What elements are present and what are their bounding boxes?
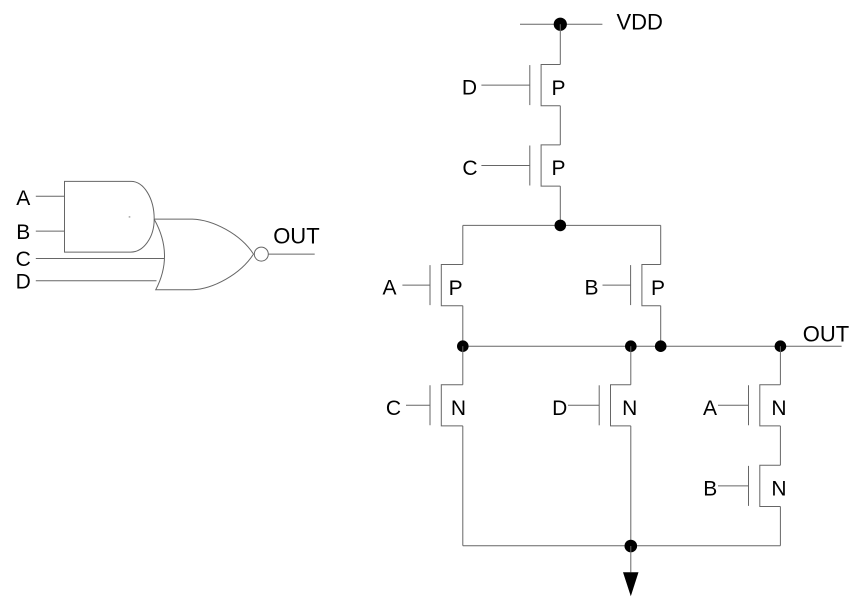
svg-text:C: C	[16, 248, 31, 271]
junction dot on VDD rail	[554, 18, 567, 31]
wire M8 source to ground rail	[779, 507, 781, 546]
svg-text:D: D	[462, 77, 477, 100]
junction dot OUT rail right	[775, 340, 787, 352]
svg-text:D: D	[16, 271, 31, 294]
svg-text:A: A	[703, 397, 717, 420]
wire VDD to M1 source	[559, 24, 561, 64]
transistor M7 (N-channel MOSFET, gate A)	[718, 385, 780, 426]
svg-text:OUT: OUT	[273, 223, 319, 248]
wire OUT rail down to M6 drain	[630, 346, 632, 385]
svg-text:P: P	[449, 277, 463, 300]
svg-text:N: N	[622, 397, 637, 420]
NOR gate U2 output inversion bubble	[254, 247, 268, 261]
junction dot OUT rail left	[457, 340, 469, 352]
svg-text:P: P	[651, 277, 665, 300]
wire input D to NOR gate	[36, 280, 157, 282]
svg-text:B: B	[703, 478, 717, 501]
wire M2 drain to node N1	[559, 186, 561, 225]
AND gate U1 (inputs A,B)	[65, 181, 155, 252]
wire M7 source to M8 drain	[779, 426, 781, 465]
svg-text:A: A	[382, 277, 396, 300]
wire M3 drain to OUT rail	[462, 306, 464, 347]
wire OUT rail	[463, 345, 842, 347]
wire M6 source to ground rail	[630, 426, 632, 546]
junction dot ground rail	[625, 540, 638, 553]
NOR gate U2 (inputs: U1 output, C, D)	[154, 219, 253, 290]
svg-text:N: N	[771, 397, 786, 420]
wire input A to AND gate	[36, 195, 65, 197]
svg-text:VDD: VDD	[617, 9, 663, 34]
wire M4 drain to OUT rail	[660, 306, 662, 347]
svg-text:B: B	[16, 221, 30, 244]
wire OUT (gate schematic)	[268, 253, 314, 255]
svg-text:D: D	[552, 397, 567, 420]
svg-text:B: B	[584, 277, 598, 300]
svg-text:OUT: OUT	[803, 322, 849, 347]
junction dot node N1	[555, 220, 567, 232]
wire OUT rail down to M5 drain	[462, 346, 464, 385]
svg-text:C: C	[462, 157, 477, 180]
transistor M6 (N-channel MOSFET, gate D)	[568, 385, 631, 426]
junction dot OUT rail mid-left	[625, 340, 637, 352]
wire node N1 down to M4 source	[660, 225, 662, 264]
transistor M5 (N-channel MOSFET, gate C)	[406, 385, 463, 426]
transistor M4 (P-channel MOSFET, gate B)	[603, 265, 661, 306]
ground symbol	[623, 546, 639, 596]
junction dot OUT rail mid-right	[655, 340, 667, 352]
wire ground rail	[463, 545, 781, 547]
wire node N1 rail	[463, 224, 661, 226]
transistor M2 (P-channel MOSFET, gate C)	[481, 145, 560, 186]
transistor M1 (P-channel MOSFET, gate D)	[481, 65, 560, 106]
stray speck inside AND gate	[129, 216, 131, 218]
wire M1 drain to M2 source	[559, 106, 561, 145]
svg-text:C: C	[386, 397, 401, 420]
wire VDD rail	[520, 23, 602, 25]
svg-text:P: P	[551, 157, 565, 180]
wire input C to NOR gate	[36, 258, 164, 260]
wire node N1 down to M3 source	[462, 225, 464, 264]
transistor M3 (P-channel MOSFET, gate A)	[402, 265, 462, 306]
wire OUT rail down to M7 drain	[779, 346, 781, 385]
wire M5 source to ground rail	[462, 426, 464, 546]
svg-text:A: A	[16, 187, 30, 210]
transistor M8 (N-channel MOSFET, gate B)	[718, 465, 780, 506]
svg-text:N: N	[451, 397, 466, 420]
svg-text:P: P	[551, 77, 565, 100]
svg-text:N: N	[771, 478, 786, 501]
wire input B to AND gate	[36, 230, 65, 232]
